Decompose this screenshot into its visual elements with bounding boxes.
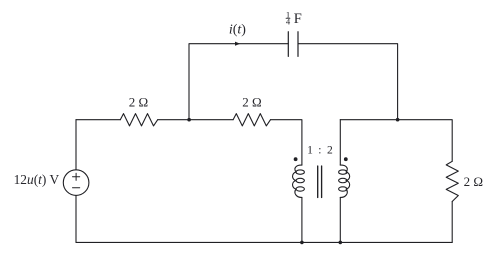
svg-text:1: 1 xyxy=(307,144,313,156)
wire middle rail left segment xyxy=(76,119,120,121)
svg-text:2 Ω: 2 Ω xyxy=(129,94,148,109)
transformer primary coil xyxy=(293,165,305,197)
resistor R3 2ohm vertical xyxy=(446,161,458,201)
label 1/4 F capacitor value xyxy=(286,10,291,27)
svg-text:i(t): i(t) xyxy=(229,23,246,38)
wire left column above source xyxy=(75,120,77,170)
current arrow i(t) xyxy=(235,42,240,46)
transformer secondary coil xyxy=(339,165,350,197)
wire top rail right of capacitor xyxy=(298,44,398,120)
junction node primary bottom xyxy=(300,241,304,245)
capacitor C1 plates xyxy=(288,32,298,57)
transformer secondary polarity dot xyxy=(344,157,348,161)
wire secondary bottom to bottom rail xyxy=(339,197,341,242)
label transformer ratio 1 : 2 xyxy=(307,144,333,156)
junction node secondary bottom xyxy=(339,241,343,245)
svg-text::: : xyxy=(318,144,321,156)
resistor R2 2ohm xyxy=(233,114,270,126)
transformer primary polarity dot xyxy=(294,157,298,161)
wire right section top rail xyxy=(340,120,452,162)
junction node middle rail xyxy=(187,118,191,122)
wire top rail left of capacitor xyxy=(189,44,288,120)
resistor R1 2ohm xyxy=(120,114,157,126)
wire R3 bottom to bottom rail xyxy=(451,202,453,243)
voltage source minus sign xyxy=(73,187,80,189)
wire between R1 and R2 xyxy=(158,119,233,121)
voltage source plus sign xyxy=(73,173,80,180)
voltage source V1 circle xyxy=(63,170,89,196)
svg-text:F: F xyxy=(294,11,302,27)
svg-text:2 Ω: 2 Ω xyxy=(242,94,261,109)
wire primary bottom to bottom rail xyxy=(301,197,303,242)
fraction bar of 1/4 xyxy=(286,17,291,20)
svg-text:2 Ω: 2 Ω xyxy=(464,174,483,189)
transformer core lines xyxy=(318,166,322,198)
junction node right top rail xyxy=(396,118,400,122)
svg-text:2: 2 xyxy=(327,144,333,156)
wire left column below source xyxy=(75,195,77,242)
wire secondary riser top xyxy=(339,120,341,165)
wire bottom rail xyxy=(76,241,452,243)
svg-text:12u(t) V: 12u(t) V xyxy=(14,172,60,187)
wire R2 to primary riser xyxy=(271,120,302,165)
